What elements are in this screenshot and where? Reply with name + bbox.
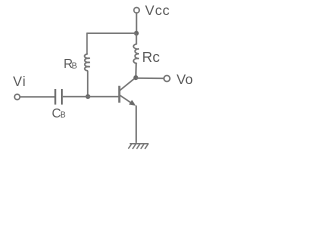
terminal Vi xyxy=(15,94,20,99)
wire to Vo xyxy=(136,77,164,79)
resistor RB xyxy=(84,54,89,71)
terminal Vcc xyxy=(134,8,139,13)
junction top xyxy=(134,31,139,36)
transistor Q1 xyxy=(119,78,136,106)
capacitor CB xyxy=(54,89,56,105)
resistor RC xyxy=(133,44,139,63)
junction base xyxy=(86,94,91,99)
wire top horizontal xyxy=(87,32,136,34)
wire emitter down xyxy=(135,106,137,143)
wire Vcc to junction xyxy=(136,13,138,33)
wire Rc top xyxy=(135,33,137,44)
wire down to RB xyxy=(86,33,88,54)
wire RC to collector junction xyxy=(135,63,137,78)
wire Vi to capacitor xyxy=(20,96,55,98)
svg-text:Rc: Rc xyxy=(142,50,160,66)
svg-text:Vo: Vo xyxy=(177,71,194,87)
ground xyxy=(129,144,149,149)
terminal Vo xyxy=(164,76,170,82)
svg-text:B: B xyxy=(60,111,65,120)
wire capacitor to base xyxy=(63,96,119,98)
svg-text:Vi: Vi xyxy=(13,74,26,89)
svg-text:Vcc: Vcc xyxy=(145,2,170,18)
svg-text:B: B xyxy=(72,61,77,70)
wire RB to base junction xyxy=(87,71,89,97)
junction collector xyxy=(133,75,138,80)
